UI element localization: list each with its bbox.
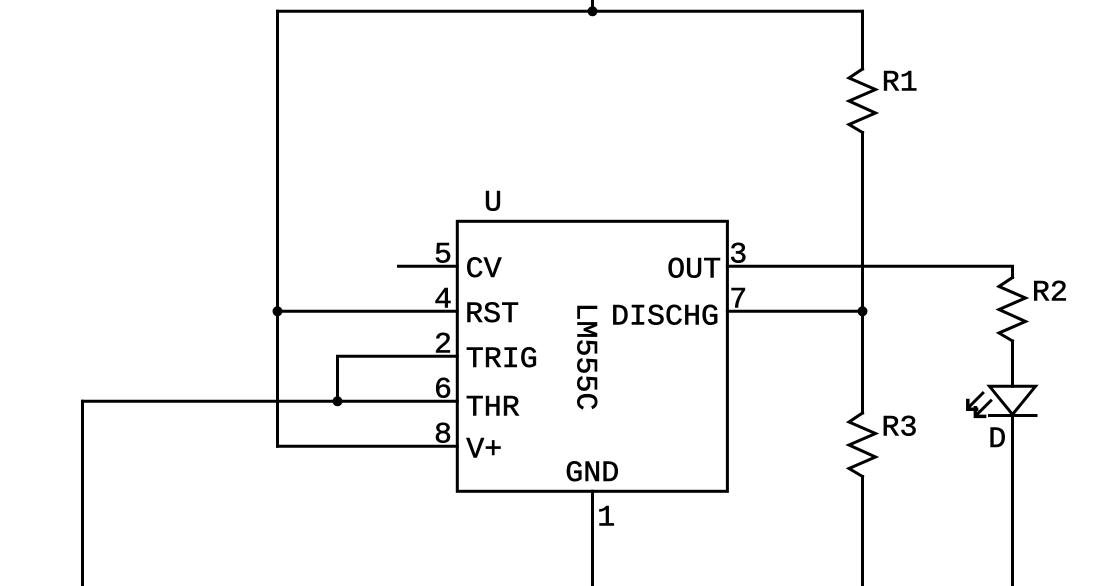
svg-text:4: 4 [434, 284, 452, 318]
svg-text:D: D [988, 423, 1006, 457]
svg-text:R1: R1 [882, 67, 918, 101]
wire OUT pin 3 horizontal and corner down to R2 [727, 266, 1012, 277]
svg-text:THR: THR [466, 392, 520, 426]
wire TRIG pin 2 jog down to THR net [338, 356, 458, 401]
junction dot TRIG / THR [333, 396, 343, 406]
wire R2 bottom to LED anode [1011, 341, 1014, 386]
svg-text:2: 2 [434, 329, 452, 363]
svg-text:7: 7 [729, 284, 747, 318]
IC U body box [457, 221, 727, 491]
wire RST pin 4 to left rail [278, 310, 458, 313]
wire DISCHG pin 7 to divider rail [727, 310, 862, 313]
wire THR pin 6 horizontal [83, 400, 458, 403]
wire left vertical rail [276, 11, 279, 446]
svg-text:1: 1 [597, 502, 615, 536]
junction dot top rail / stub [588, 6, 598, 16]
wire top supply rail horizontal [278, 10, 863, 13]
wire THR net drop to bottom edge [81, 401, 84, 586]
LED D anode triangle [990, 386, 1036, 414]
wire CV pin 5 stub [399, 265, 458, 268]
svg-text:DISCHG: DISCHG [611, 301, 719, 335]
svg-text:6: 6 [434, 374, 452, 408]
wire LED cathode down to bottom edge [1011, 416, 1014, 586]
wire R1 bottom to R3 top [861, 133, 864, 414]
resistor R3 body [849, 413, 876, 477]
wire R3 bottom to bottom edge [861, 477, 864, 586]
svg-text:5: 5 [434, 239, 452, 273]
junction dot DISCHG / divider rail [858, 306, 868, 316]
wire stub from top rail to off-screen net [591, 0, 594, 11]
LED D light arrow upper shaft [969, 393, 983, 407]
LED D light arrow upper head [968, 401, 977, 410]
wire V+ pin 8 [278, 445, 458, 448]
svg-text:LM555C: LM555C [568, 303, 602, 411]
LED D cathode bar [990, 414, 1037, 417]
resistor R1 body [849, 69, 876, 133]
LED D light arrow lower shaft [977, 401, 991, 415]
svg-text:R2: R2 [1032, 276, 1068, 310]
svg-text:V+: V+ [466, 433, 502, 467]
svg-text:CV: CV [466, 253, 502, 287]
svg-text:OUT: OUT [667, 254, 721, 288]
svg-text:GND: GND [565, 457, 619, 491]
svg-text:TRIG: TRIG [466, 343, 538, 377]
resistor R2 body [999, 278, 1026, 342]
svg-text:U: U [484, 187, 502, 221]
svg-text:3: 3 [729, 239, 747, 273]
svg-text:8: 8 [434, 419, 452, 453]
wire top rail down to R1 [861, 11, 864, 69]
svg-text:R3: R3 [882, 411, 918, 445]
junction dot RST / left rail [273, 306, 283, 316]
wire GND pin 1 stub [591, 491, 594, 586]
svg-text:RST: RST [465, 298, 519, 332]
LED D light arrow lower head [975, 408, 984, 417]
